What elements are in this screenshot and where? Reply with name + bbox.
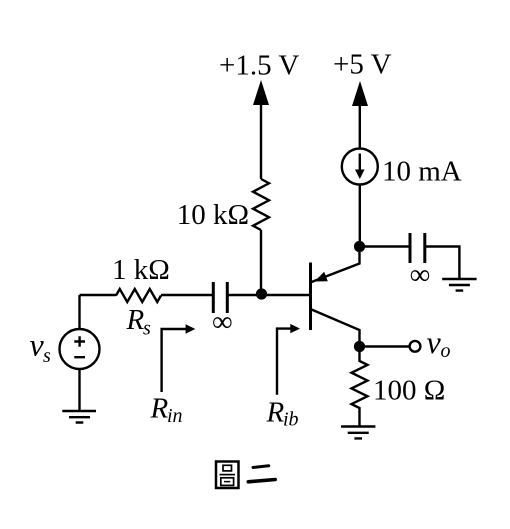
terminal vo (open circle): [410, 341, 421, 352]
wire vs down to ground: [78, 369, 80, 411]
resistor Rs (1 kOhm horizontal zigzag): [116, 289, 161, 302]
arrow Rin (input resistance pointer): [162, 329, 187, 392]
capacitor C2 (infinity, emitter bypass): [410, 233, 425, 263]
svg-text:+5 V: +5 V: [333, 49, 392, 81]
svg-text:R: R: [126, 304, 145, 336]
source vs (circle with plus minus): [60, 329, 100, 369]
resistor 10 kOhm (vertical zigzag): [253, 179, 269, 230]
svg-text:s: s: [43, 345, 51, 367]
ground (below vs): [62, 411, 96, 423]
caption figure 2 (drawn glyph: tu): [216, 462, 239, 489]
capacitor C1 (infinity, input coupling): [213, 282, 227, 313]
wire resistor bottom to base node: [260, 230, 262, 295]
wire capacitor to ground: [425, 247, 460, 280]
ground (right, bypass cap): [442, 279, 476, 291]
transistor Q1 emitter arrow (pnp): [315, 272, 328, 282]
resistor RL (100 Ohm vertical zigzag): [352, 352, 368, 426]
transistor Q1 (pnp) base bar: [309, 263, 312, 331]
svg-text:ib: ib: [283, 409, 299, 431]
wire vs corner to 1 kOhm resistor: [80, 294, 117, 296]
transistor Q1 emitter lead: [312, 247, 360, 283]
arrow Rib (base input resistance pointer): [277, 329, 292, 395]
caption figure 2 (drawn glyph: er / two): [248, 466, 275, 482]
transistor Q1 collector lead: [312, 310, 360, 348]
svg-text:v: v: [427, 324, 442, 360]
power arrow +1.5 V: [253, 80, 269, 105]
svg-text:R: R: [266, 397, 285, 429]
power arrow +5 V: [352, 81, 368, 106]
svg-text:+1.5 V: +1.5 V: [219, 50, 299, 82]
ground (below 100 Ohm): [341, 427, 375, 439]
current source I1 (10 mA): [342, 149, 378, 185]
wire capacitor to base node: [227, 294, 309, 296]
node emitter junction: [354, 241, 365, 252]
svg-text:in: in: [167, 405, 183, 427]
svg-text:s: s: [143, 318, 151, 340]
svg-text:10 kΩ: 10 kΩ: [177, 199, 249, 231]
wire +5 V rail down to current source: [359, 101, 361, 149]
svg-text:R: R: [150, 393, 169, 425]
wire vs up to main wire: [78, 295, 80, 329]
svg-text:o: o: [441, 340, 451, 362]
wire emitter node to bypass capacitor: [360, 245, 411, 247]
svg-text:∞: ∞: [410, 259, 431, 291]
svg-text:1 kΩ: 1 kΩ: [112, 254, 170, 286]
node collector junction: [354, 341, 365, 352]
wire resistor to coupling capacitor: [161, 294, 213, 296]
svg-text:10 mA: 10 mA: [382, 156, 462, 188]
wire +1.5 V rail down to resistor: [260, 100, 262, 179]
wire collector node to output terminal: [360, 345, 410, 347]
svg-text:∞: ∞: [212, 306, 233, 338]
wire current source to emitter node: [359, 185, 361, 248]
node base junction: [256, 288, 267, 299]
svg-text:100 Ω: 100 Ω: [373, 375, 445, 407]
